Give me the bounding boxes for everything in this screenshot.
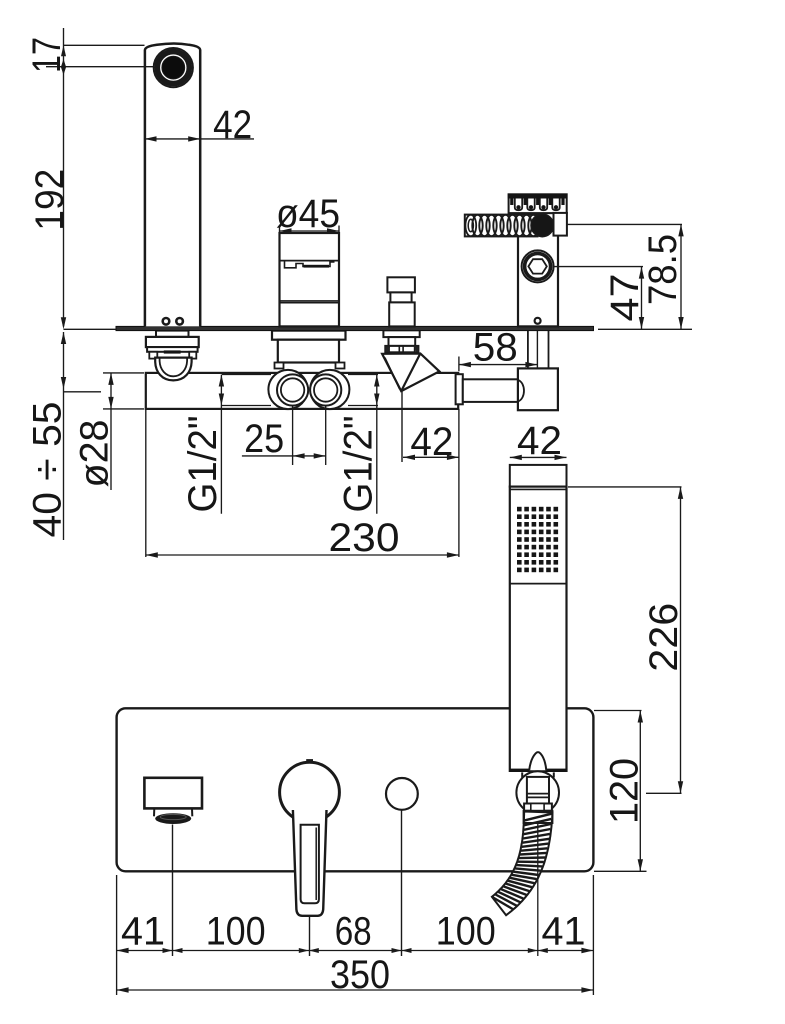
svg-text:41: 41	[121, 910, 165, 954]
svg-text:ø45: ø45	[276, 192, 340, 236]
svg-text:42: 42	[213, 103, 252, 147]
svg-text:G1/2": G1/2"	[337, 416, 381, 513]
svg-text:350: 350	[330, 953, 390, 997]
svg-text:226: 226	[642, 603, 686, 672]
svg-text:G1/2": G1/2"	[181, 416, 225, 513]
svg-text:42: 42	[410, 420, 453, 464]
svg-text:192: 192	[28, 169, 72, 231]
svg-text:58: 58	[473, 326, 518, 370]
svg-text:120: 120	[603, 758, 647, 824]
svg-text:ø28: ø28	[73, 420, 117, 488]
svg-text:41: 41	[542, 910, 586, 954]
svg-text:42: 42	[517, 419, 562, 463]
svg-text:100: 100	[436, 910, 496, 954]
svg-text:78.5: 78.5	[641, 234, 685, 305]
svg-text:17: 17	[25, 37, 69, 73]
svg-text:68: 68	[335, 910, 372, 954]
svg-text:25: 25	[244, 417, 284, 461]
svg-text:100: 100	[206, 910, 266, 954]
svg-text:40 ÷ 55: 40 ÷ 55	[26, 402, 70, 538]
svg-text:230: 230	[329, 516, 400, 560]
